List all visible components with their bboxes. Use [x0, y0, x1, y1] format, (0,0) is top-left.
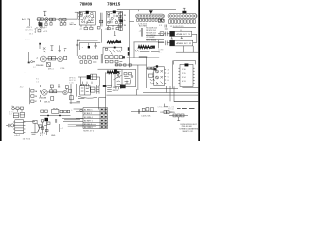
resistor R6 [105, 48, 108, 50]
svg-text:P/N 40-100: P/N 40-100 [182, 126, 192, 128]
mid band row2 left [80, 61, 96, 64]
preamp top stubs [50, 85, 53, 88]
svg-text:R 1: R 1 [36, 78, 39, 80]
dark wedge on rail [116, 40, 121, 43]
svg-text:45B IC 2: 45B IC 2 [176, 43, 193, 45]
svg-text:SHEET 1 OF 1: SHEET 1 OF 1 [183, 131, 194, 133]
svg-text:- 2 -: - 2 - [158, 52, 162, 54]
big module box M1 [115, 69, 136, 86]
wire drop to strip [150, 13, 152, 14]
wire rail B lower [103, 47, 122, 54]
faint notes MPS [69, 77, 76, 84]
vertical chain left [41, 120, 44, 122]
mixer stubs top [81, 84, 88, 86]
under wire [78, 98, 84, 100]
mixer internals [81, 88, 89, 92]
svg-text:C 4 R 2 1K: C 4 R 2 1K [141, 116, 151, 118]
wire vertical x129.5 [129, 10, 131, 68]
resistor R10 [148, 67, 151, 69]
U1 left stubs [78, 14, 79, 20]
svg-text:47 .1 C: 47 .1 C [41, 27, 48, 29]
wire Q5 out [47, 91, 63, 93]
resistor R18 [70, 96, 74, 100]
connector stack [31, 90, 34, 93]
border left bar [0, 0, 2, 141]
resistor R11 [151, 67, 154, 69]
svg-text:CR1 1N414: CR1 1N414 [146, 40, 156, 42]
capacitor C10 [164, 32, 169, 37]
input terminal box 2 [41, 18, 43, 21]
U2 chip dark square [113, 11, 116, 14]
faint bracket [34, 28, 35, 33]
wire pair mid [141, 28, 142, 37]
capacitor C14 [51, 97, 54, 101]
output box [33, 120, 37, 123]
M1 under marks [116, 87, 121, 89]
resistor R2 [53, 18, 56, 21]
boxes left of T2 [158, 19, 161, 22]
wire U9 out [24, 120, 35, 122]
svg-text:+1: +1 [139, 31, 141, 33]
wire drop from rail [137, 65, 139, 90]
connector pair [97, 85, 100, 94]
terminal table [83, 108, 108, 129]
resistor R15 [50, 90, 53, 93]
svg-text:2N5088: 2N5088 [39, 98, 47, 100]
tick on rail [138, 10, 140, 12]
svg-text:10K 4n: 10K 4n [44, 102, 50, 104]
side box [91, 87, 95, 92]
wires right [71, 84, 76, 104]
scribble2 handwriting [138, 46, 153, 49]
marks below [150, 79, 155, 84]
diode D2 [119, 17, 123, 19]
jack circle [80, 109, 82, 111]
wire drop left mid [28, 52, 30, 62]
resistor R16 [54, 90, 57, 93]
resistor R20 [146, 108, 149, 111]
diode D5 [119, 28, 123, 31]
svg-text:4 13: 4 13 [182, 81, 186, 83]
switch row right [164, 111, 167, 114]
transformer strip T2 [168, 13, 197, 18]
pin boxes under T1 [137, 19, 164, 21]
wire rail y77 [78, 76, 87, 78]
bus verticals [167, 86, 175, 102]
dashes [31, 133, 37, 134]
svg-text:6: 6 [168, 80, 169, 82]
capacitor C15 [138, 109, 139, 114]
relay row [169, 114, 188, 116]
wire riser to U1 [75, 12, 81, 19]
dark square node [45, 118, 49, 121]
drop [177, 117, 180, 121]
input terminal boxes [38, 18, 41, 21]
stub with tick [58, 45, 60, 51]
diagonal swoosh [114, 76, 122, 81]
svg-text:3 14: 3 14 [182, 77, 186, 79]
wire pair gap [101, 54, 102, 63]
dark node blob [154, 68, 157, 70]
svg-text:C 1: C 1 [159, 25, 162, 27]
wire hook A-3 [27, 19, 29, 26]
transistor Q1 [45, 18, 49, 22]
source box B1 [160, 32, 164, 36]
dark mark M1 top-left outside [122, 56, 125, 58]
mid band row1 right [105, 56, 123, 59]
faint gray rails right [68, 125, 96, 127]
resistor R14 [21, 107, 24, 110]
diode D4 [119, 24, 123, 27]
page background [0, 0, 200, 141]
stubs [14, 108, 22, 112]
U2 internal parts [107, 13, 121, 23]
wire vertical [99, 97, 106, 109]
svg-text:4Z +R C: 4Z +R C [25, 29, 33, 31]
svg-text:o 4 o 2: o 4 o 2 [14, 135, 20, 137]
tap symbol T [50, 46, 53, 51]
svg-text:4: 4 [168, 73, 169, 75]
faint note rows [25, 29, 34, 40]
connector column dashes [103, 85, 107, 87]
label boxes above amp [13, 113, 18, 118]
capacitor C6 [84, 27, 88, 30]
capacitor C3 [50, 21, 52, 23]
wire vertical x146.5 [146, 57, 148, 88]
small caps left of T2 [165, 25, 168, 30]
wire top of U7 [174, 61, 196, 65]
mid band row2 right [105, 60, 122, 63]
speaker arc [37, 124, 39, 133]
resistor R13 [16, 107, 19, 110]
component row below modules [97, 27, 100, 29]
capacitor C9 [116, 27, 119, 29]
wire input U5 [158, 33, 160, 35]
transistor Q3 [40, 56, 46, 62]
table entry stubs [76, 112, 83, 126]
node dark square [87, 75, 91, 79]
wire rail y69 [98, 68, 122, 70]
wire input U6 [158, 42, 164, 44]
diode D1 [119, 13, 123, 16]
resistor R1 [49, 18, 52, 21]
rail with junction dots [40, 115, 71, 117]
svg-text:+k: +k [36, 58, 38, 60]
bus line L4 [174, 100, 198, 102]
tick box 3 [124, 64, 126, 66]
svg-text:45B IC 1: 45B IC 1 [176, 34, 191, 36]
bottom-left cluster2 [39, 125, 42, 128]
resistor R3 [63, 18, 66, 21]
svg-text:1 4 7 0 2: 1 4 7 0 2 [23, 139, 30, 141]
junction arrow blob [149, 10, 153, 13]
capacitor C7 [90, 27, 93, 30]
small mark [64, 48, 67, 51]
faint text top-left of table [146, 28, 157, 42]
relay box K1 [91, 74, 97, 80]
IC U6 long block [170, 40, 193, 46]
transistor Q5 [42, 90, 48, 96]
transformer strip T1 [136, 14, 165, 18]
bus line L1 [150, 87, 178, 89]
U1 bottom stubs [81, 25, 91, 27]
antenna tap symbol [43, 11, 46, 15]
tie wires [70, 101, 81, 103]
U7 pins left [178, 68, 180, 84]
resistor R7 [48, 57, 51, 60]
U2 bottom stubs [108, 25, 118, 27]
hook [164, 104, 168, 107]
M2 notch dark [156, 65, 158, 67]
wire drop left [78, 43, 80, 50]
svg-text:3: 3 [168, 70, 169, 72]
svg-text:78M09: 78M09 [80, 2, 93, 7]
U7 pins right [193, 68, 195, 84]
M2 pins left [152, 70, 153, 84]
marks below scribble2 [135, 50, 139, 52]
pin labels between [168, 70, 169, 83]
capacitor C8 [107, 27, 110, 29]
junction blob [114, 47, 116, 49]
svg-text:B1 RED 5: B1 RED 5 [84, 109, 92, 111]
wire vertical x172.6 [172, 61, 174, 89]
rails going right [62, 118, 83, 121]
blob end [152, 46, 155, 49]
svg-text:B3 GRN 4: B3 GRN 4 [84, 117, 93, 119]
wire PSU rail [37, 18, 78, 20]
faint line under scribble [127, 57, 159, 59]
small box row2 [38, 30, 41, 32]
M1 divider [121, 69, 123, 86]
chain labels [124, 15, 127, 27]
dark marks on vertical [128, 47, 130, 55]
U7 internal text [182, 69, 186, 83]
wire U6 bottom rail [176, 46, 198, 52]
U1 internal parts [80, 13, 94, 24]
component chain column CR2 [120, 12, 122, 32]
faint rail mid [78, 39, 98, 41]
regulator module U1 box [79, 11, 95, 25]
dark blob rectifier [39, 22, 42, 26]
capacitor C11 [166, 40, 170, 45]
svg-text:C 4: C 4 [36, 81, 39, 83]
tick box 4 [129, 64, 131, 66]
diagonal dashes [110, 50, 121, 54]
tick box 1 [115, 64, 117, 66]
svg-text:1 16: 1 16 [182, 69, 186, 71]
vertical [34, 123, 36, 132]
dashed vertical [39, 85, 41, 102]
M2 internals [156, 70, 163, 84]
scribble label PSU out [107, 41, 120, 43]
x marks [43, 47, 45, 52]
capacitor C4 [60, 21, 62, 23]
svg-text:RM 10: RM 10 [113, 90, 118, 92]
resistor R9 [64, 56, 67, 59]
opto module box M2 [154, 67, 165, 86]
svg-text:40-2: 40-2 [20, 87, 24, 89]
wire stub below U2 [102, 29, 116, 43]
M1 internals [117, 72, 133, 85]
svg-text:2 15: 2 15 [182, 73, 186, 75]
svg-text:C .05: C .05 [69, 83, 74, 85]
svg-text:B6 ORN 6: B6 ORN 6 [84, 127, 93, 129]
title block [179, 124, 198, 133]
wire top rail right [117, 9, 176, 11]
resistor R21 [150, 108, 153, 112]
IC U5 long block [170, 31, 192, 36]
pin boxes under T2 [168, 20, 195, 23]
tick box 2 [119, 64, 121, 66]
transistor Q6 [63, 90, 67, 94]
gnd line under T2 [173, 27, 196, 29]
bottom cluster notes [82, 82, 92, 85]
transistor Q4 [58, 57, 63, 62]
svg-text:NOTE: 4 7 2: NOTE: 4 7 2 [83, 130, 94, 132]
node square dark [88, 43, 90, 46]
IC U7 [180, 64, 193, 86]
symbol row mid-left [39, 43, 41, 49]
vertical and faint [59, 124, 61, 132]
dash row [140, 50, 160, 52]
wire Q3 collector [47, 57, 58, 59]
svg-text:GND: GND [51, 135, 56, 137]
capacitor C12 [95, 43, 97, 49]
gnd ticks between [171, 36, 183, 39]
small transformer [52, 109, 59, 113]
bus line L1b [182, 87, 198, 89]
resistor R4 between modules [99, 20, 102, 23]
resistor R19 [142, 108, 145, 111]
wire vertical x77 mid [77, 40, 80, 56]
svg-text:- . - .: - . - . [25, 39, 30, 41]
svg-text:78H15: 78H15 [107, 2, 121, 7]
svg-text:B4 WHT 1: B4 WHT 1 [84, 121, 93, 123]
regulator module U2 box [106, 11, 122, 25]
capacitor C13 box [47, 62, 51, 66]
transistor Q2 [59, 18, 62, 21]
jack circle [12, 107, 15, 110]
table text [84, 109, 93, 129]
svg-text:+1 C: +1 C [69, 23, 74, 25]
input cap [6, 124, 10, 127]
wire between modules [100, 13, 102, 27]
mid band row1 left [78, 56, 97, 59]
svg-text:o 2: o 2 [61, 128, 64, 130]
svg-text:+C R + 1B: +C R + 1B [105, 28, 115, 30]
U1 chip dark square [86, 11, 89, 14]
capacitor C2 [45, 21, 47, 23]
scribble3 dark [107, 71, 119, 74]
bus line L2 [143, 92, 198, 94]
swoop wire [78, 96, 97, 98]
stack labels [35, 90, 38, 103]
resistor R17 [69, 89, 72, 92]
svg-text:5: 5 [168, 77, 169, 79]
border right bar [198, 0, 200, 141]
connector vertical [29, 88, 31, 104]
T2 gnd symbol [183, 8, 186, 11]
capacitor C1 [38, 21, 40, 23]
svg-text:4 7: 4 7 [40, 135, 43, 137]
cross marks on vertical [76, 44, 78, 46]
T2 dark mark [182, 11, 186, 14]
wire bottom mid [131, 111, 157, 113]
svg-text:C 10: C 10 [60, 68, 64, 70]
tick right [130, 21, 135, 23]
M1 dark corner [114, 70, 117, 74]
capacitor C5 [64, 21, 66, 23]
dark dashes [177, 107, 195, 109]
wire rail A2 [134, 42, 165, 58]
bus line L3 [106, 89, 198, 95]
bottom strip components [41, 110, 44, 113]
svg-text:2N5088: 2N5088 [36, 65, 44, 67]
svg-text:B2 BLK 2: B2 BLK 2 [84, 113, 92, 115]
resistor R8 [52, 57, 56, 60]
table lines [146, 35, 164, 39]
dark blob D3 [119, 20, 123, 23]
table cell marks [101, 109, 107, 128]
amp IC U9 [15, 120, 24, 134]
dark dash [139, 56, 147, 58]
resistor R12 [148, 74, 153, 77]
labels right [113, 87, 118, 92]
rail with tick boxes [115, 64, 147, 66]
svg-text:1 2: 1 2 [9, 114, 12, 116]
wire main rail A [79, 42, 121, 44]
wire drops [80, 77, 99, 86]
input jack circle [11, 124, 14, 127]
svg-text:47K .1: 47K .1 [48, 68, 53, 70]
svg-text:4x: 4x [124, 20, 126, 22]
mixer module box [80, 86, 91, 95]
U7 notch [185, 64, 189, 67]
wire after K1 [96, 76, 99, 78]
pot symbol [31, 61, 33, 63]
wire vertical [158, 40, 160, 49]
M2 pins right [165, 70, 167, 84]
U9 pins [13, 122, 25, 133]
wire U6 right riser [192, 34, 197, 42]
boxes right [60, 110, 63, 113]
branch resistors right [147, 67, 156, 69]
wire verticals right [106, 72, 112, 113]
